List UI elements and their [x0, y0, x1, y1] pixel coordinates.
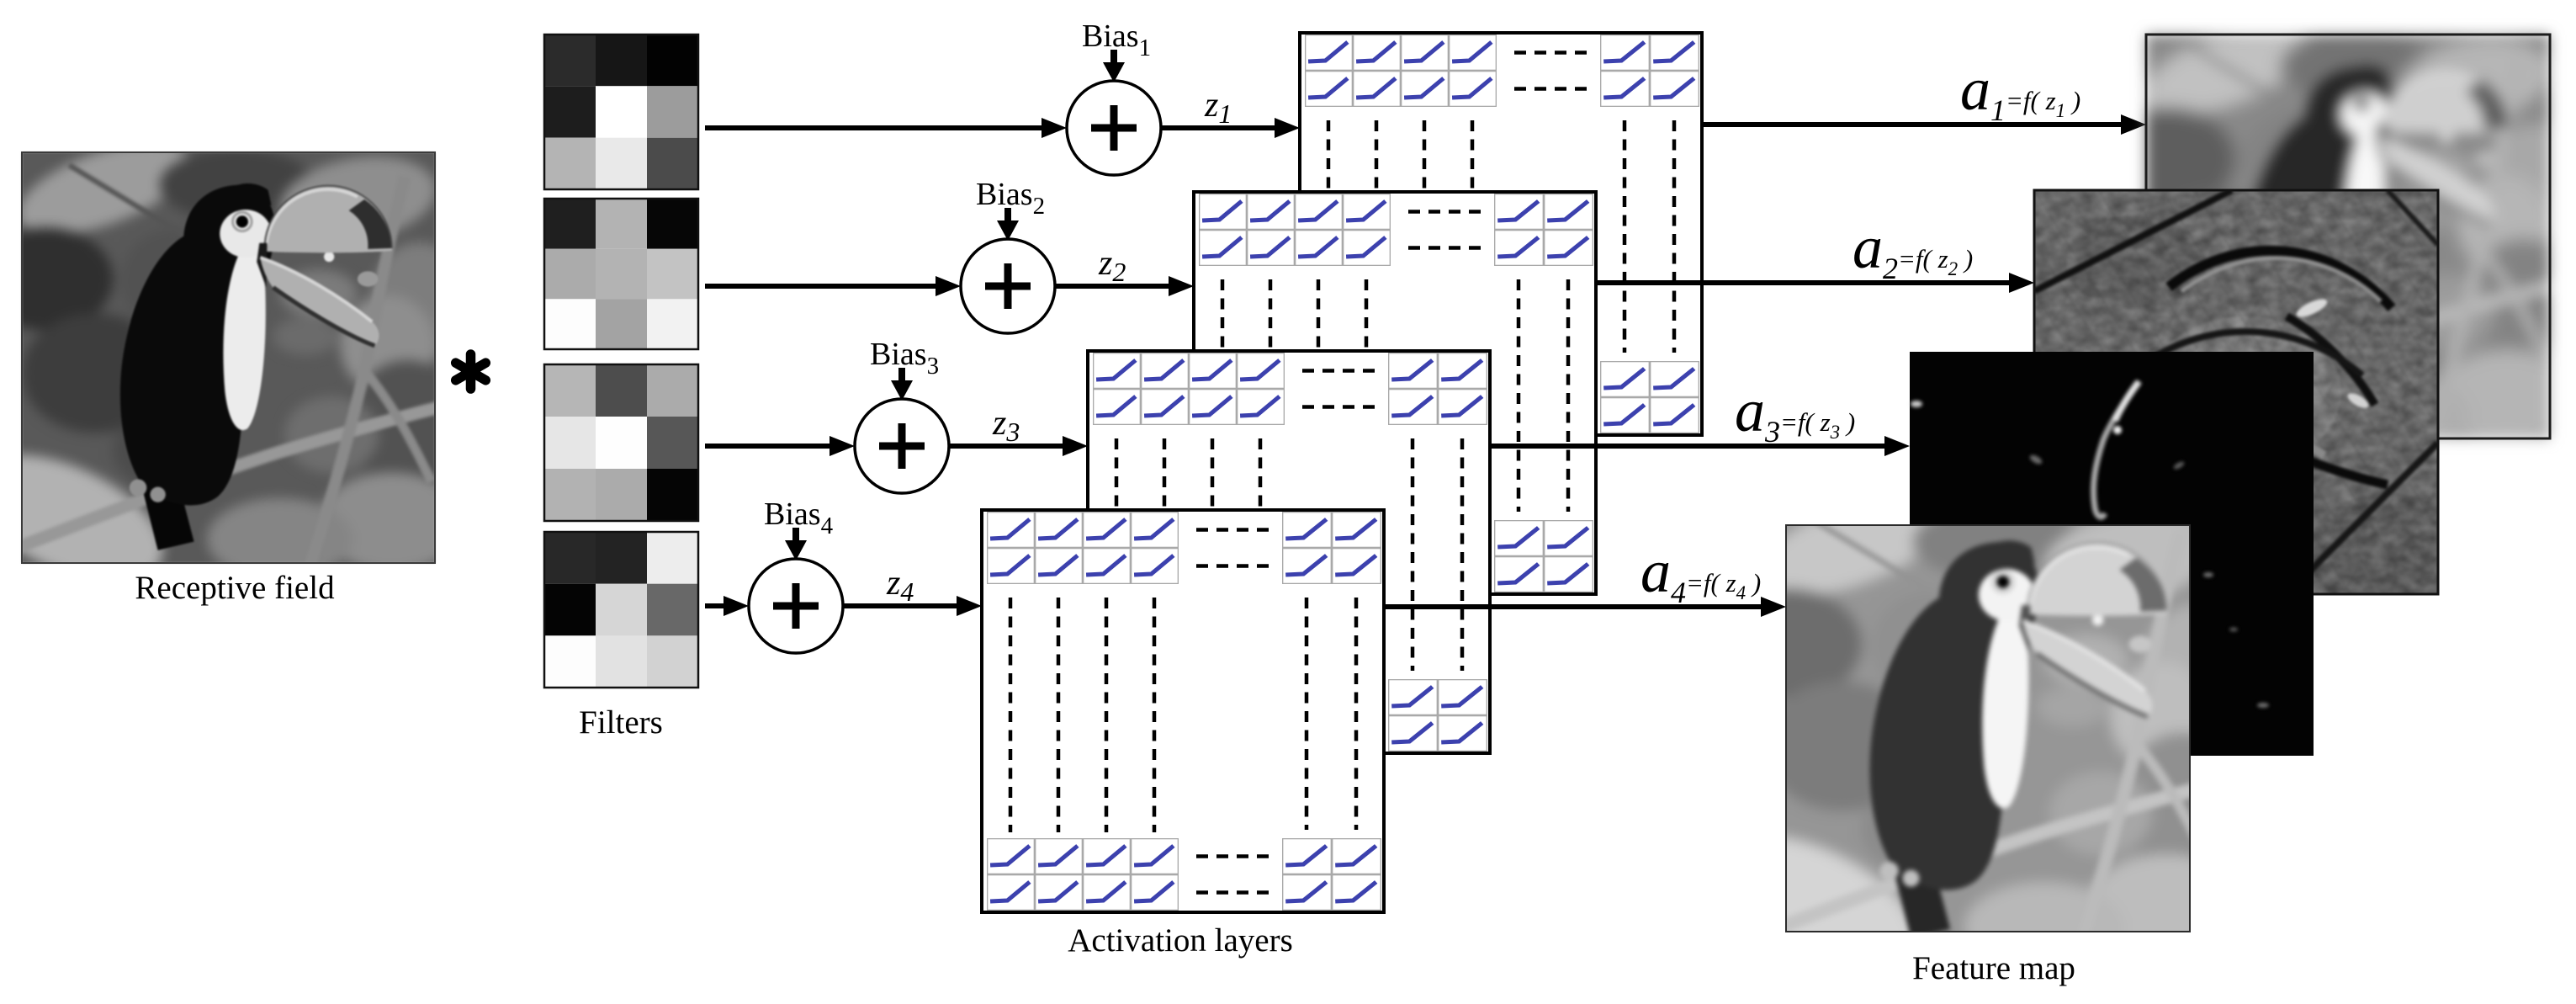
feature map M2 (edge response image) — [1810, 186, 2576, 611]
filter F1 (3x3 kernel) — [544, 35, 698, 189]
svg-text:z4: z4 — [886, 564, 914, 607]
svg-text:a1=f( z1 ): a1=f( z1 ) — [1960, 56, 2080, 127]
feature map M1 (blurred activation image) — [2077, 7, 2576, 483]
svg-text:Filters: Filters — [579, 704, 663, 741]
wire bias3 input (down arrow) — [891, 368, 913, 401]
svg-text:z1: z1 — [1204, 86, 1232, 129]
wire bias1 input (down arrow) — [1103, 50, 1125, 82]
feature map M3 (sparse activation, mostly black) — [1910, 352, 2314, 756]
wire a4 to feature map — [1384, 597, 1786, 617]
bias adder U2 (sum circle) — [961, 239, 1055, 333]
bias adder U3 (sum circle) — [855, 399, 949, 493]
wire filter3 to bias adder — [705, 436, 855, 456]
wire a1 to feature map — [1702, 114, 2146, 135]
svg-text:z3: z3 — [992, 404, 1020, 447]
wire filter4 to bias adder — [705, 596, 749, 616]
wire bias4 input (down arrow) — [785, 528, 807, 560]
activation layer box L2 — [1194, 192, 1596, 594]
svg-text:Receptive field: Receptive field — [135, 570, 335, 606]
svg-text:Feature map: Feature map — [1912, 950, 2075, 986]
filter F2 (3x3 kernel) — [544, 199, 698, 349]
wire a3 to feature map — [1490, 436, 1910, 456]
wire filter2 to bias adder — [705, 276, 961, 296]
wire bias2 input (down arrow) — [997, 208, 1019, 241]
wire z3 to activation layer — [949, 436, 1088, 456]
filter F4 (3x3 kernel) — [544, 532, 698, 688]
receptive field image — [0, 124, 469, 608]
bias adder U1 (sum circle) — [1067, 81, 1161, 175]
svg-text:a4=f( z4 ): a4=f( z4 ) — [1640, 538, 1761, 609]
wire a2 to feature map — [1596, 273, 2034, 293]
activation layer box L4 — [982, 510, 1384, 912]
activation layer box L1 — [1300, 33, 1702, 435]
svg-text:Activation layers: Activation layers — [1068, 922, 1293, 959]
feature map M4 (smoothed activation image) — [1685, 475, 2250, 1001]
wire z4 to activation layer — [843, 596, 982, 616]
wire z1 to activation layer — [1161, 118, 1300, 138]
convolution operator asterisk — [456, 354, 486, 389]
svg-text:a2=f( z2 ): a2=f( z2 ) — [1852, 214, 1973, 285]
wire filter1 to bias adder — [705, 118, 1067, 138]
filter F3 (3x3 kernel) — [544, 364, 698, 521]
svg-text:a3=f( z3 ): a3=f( z3 ) — [1735, 377, 1855, 449]
wire z2 to activation layer — [1055, 276, 1194, 296]
activation layer box L3 — [1088, 351, 1490, 753]
svg-text:z2: z2 — [1098, 244, 1126, 287]
bias adder U4 (sum circle) — [749, 559, 843, 653]
